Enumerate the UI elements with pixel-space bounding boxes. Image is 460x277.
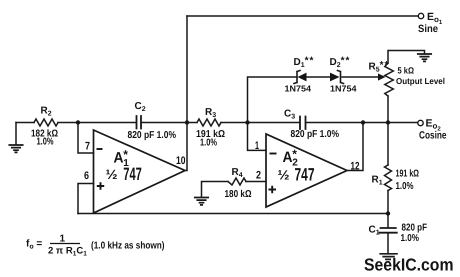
svg-text:820 pF: 820 pF (402, 223, 428, 234)
svg-text:747: 747 (123, 164, 142, 184)
svg-text:½: ½ (106, 167, 118, 182)
svg-text:*: * (123, 148, 128, 162)
svg-text:1.0%: 1.0% (401, 233, 420, 244)
svg-text:Cosine: Cosine (419, 130, 447, 142)
svg-text:A: A (283, 149, 293, 166)
svg-text:1.0%: 1.0% (396, 181, 414, 192)
svg-text:1N754: 1N754 (285, 84, 312, 94)
svg-text:1: 1 (60, 234, 66, 245)
svg-text:820 pF 1.0%: 820 pF 1.0% (291, 129, 340, 140)
svg-text:820 pF 1.0%: 820 pF 1.0% (128, 130, 177, 141)
svg-text:(1.0 kHz as shown): (1.0 kHz as shown) (91, 241, 165, 252)
svg-text:180 kΩ: 180 kΩ (225, 189, 252, 200)
svg-text:fo =: fo = (26, 239, 42, 251)
svg-text:1.0%: 1.0% (200, 138, 217, 149)
svg-text:7: 7 (85, 141, 90, 153)
svg-text:A: A (114, 150, 124, 167)
svg-text:1N754: 1N754 (330, 84, 357, 94)
svg-text:*: * (292, 147, 297, 161)
svg-text:191 kΩ: 191 kΩ (396, 169, 420, 180)
svg-text:12: 12 (351, 161, 360, 173)
svg-text:6: 6 (84, 170, 89, 182)
svg-text:Sine: Sine (418, 23, 438, 35)
svg-text:5 kΩ: 5 kΩ (398, 66, 415, 76)
svg-text:SeekIC.com: SeekIC.com (364, 255, 454, 275)
svg-text:10: 10 (176, 155, 186, 167)
svg-text:½: ½ (278, 168, 290, 183)
svg-text:747: 747 (295, 165, 315, 185)
svg-text:2: 2 (256, 170, 261, 182)
svg-text:1: 1 (255, 140, 259, 152)
svg-text:2 π R1C1: 2 π R1C1 (48, 246, 87, 258)
svg-text:1.0%: 1.0% (37, 137, 54, 148)
svg-text:Output Level: Output Level (396, 76, 445, 86)
